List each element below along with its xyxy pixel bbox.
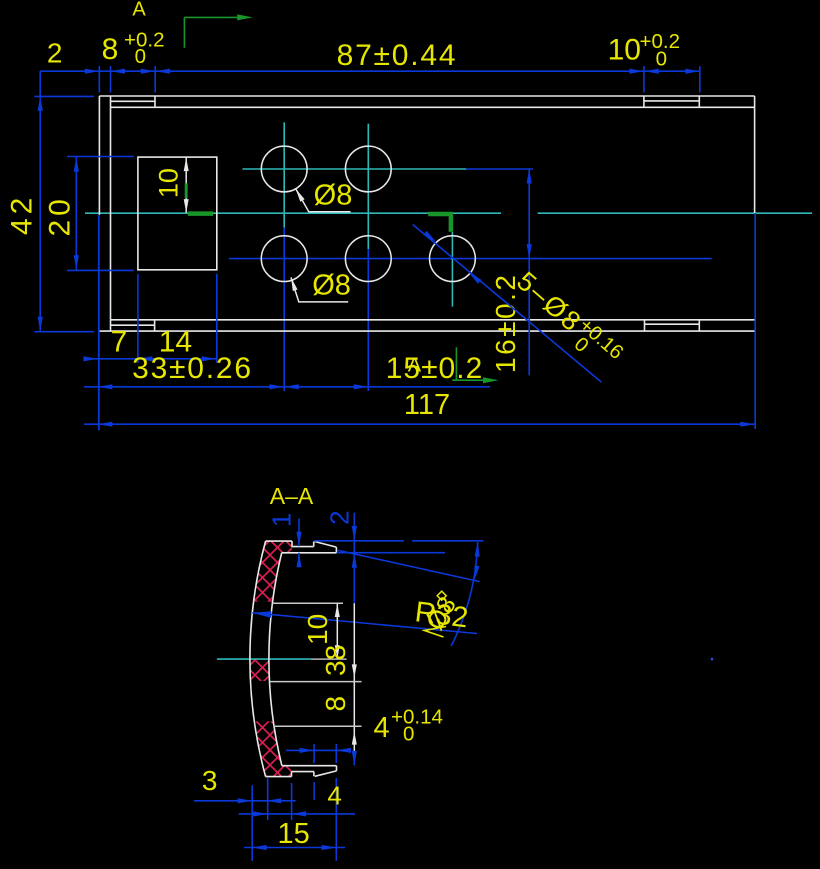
green mark at window <box>185 183 188 198</box>
svg-text:+0.14: +0.14 <box>391 706 443 729</box>
top lip underside <box>282 552 337 554</box>
svg-text:10: 10 <box>154 168 184 198</box>
bottom extension lines <box>252 778 336 861</box>
white dim 10 (window) <box>185 158 187 213</box>
white dim 10 (section) <box>273 602 343 604</box>
svg-text:3: 3 <box>202 765 218 796</box>
top edge <box>266 540 292 542</box>
main horizontal centerline <box>85 212 812 214</box>
outer top edge <box>99 95 754 97</box>
top dimension line (2 / 8 / 87 / 10) <box>40 66 700 93</box>
hole circles <box>261 146 475 281</box>
top lip chamfer <box>315 542 337 548</box>
hole 5 <box>430 236 476 282</box>
right long extension line <box>754 213 756 429</box>
angle dim arc <box>451 542 478 646</box>
dim 1 (lip) <box>298 519 300 568</box>
svg-text:10: 10 <box>302 614 333 645</box>
svg-text:0: 0 <box>135 45 146 68</box>
R32 radius dim line <box>252 613 477 634</box>
top-right slot verticals <box>643 96 645 107</box>
outer bottom edge <box>99 330 754 332</box>
svg-text:10: 10 <box>608 33 641 66</box>
bottom lip topside <box>282 765 337 767</box>
svg-text:7: 7 <box>111 326 128 359</box>
dim 8 (section) <box>270 681 362 683</box>
extension lines above part <box>98 66 100 93</box>
section arrow (top) <box>184 17 238 47</box>
svg-text:117: 117 <box>404 389 450 421</box>
yellow open arrow <box>424 627 446 638</box>
inner left edge <box>110 107 112 319</box>
leader Ø8 (lower) <box>291 277 348 302</box>
green mark at hole 5 <box>428 212 452 217</box>
dim 16±0.2 <box>466 169 533 375</box>
outer arc <box>250 541 266 777</box>
bottom notch vertical <box>313 772 315 777</box>
outer left edge (white part) <box>98 96 100 215</box>
svg-text:8: 8 <box>320 696 351 712</box>
left long extension line <box>98 215 100 430</box>
diagonal leader 5-Ø8 <box>413 225 602 383</box>
angle dim slant line <box>337 550 480 582</box>
svg-text:A: A <box>132 0 146 21</box>
column1 centerline <box>283 122 285 227</box>
section arrow (bottom) <box>452 347 488 380</box>
dim line 117 <box>84 423 755 425</box>
bottom lip chamfer <box>315 771 337 776</box>
dim line 33±0.26 / 15±0.2 <box>84 386 490 388</box>
small diamond <box>437 591 446 600</box>
svg-text:0: 0 <box>403 723 414 746</box>
leader Ø8 (upper) <box>296 189 351 212</box>
svg-text:42: 42 <box>6 194 39 235</box>
top-left slot midline <box>111 100 156 102</box>
dim 3 <box>194 800 296 802</box>
svg-text:0: 0 <box>656 48 667 71</box>
bottom ledge <box>292 771 314 773</box>
window rectangle <box>138 157 217 270</box>
svg-text:15: 15 <box>277 818 309 850</box>
dim 2 (lip) <box>314 513 483 604</box>
hatch patch 2 <box>250 659 270 681</box>
top lip end vertical <box>335 547 337 553</box>
svg-text:4: 4 <box>374 712 390 744</box>
dim 38 shaft (blue/white) <box>353 603 355 753</box>
section outline <box>250 541 337 777</box>
svg-text:A–A: A–A <box>270 483 314 509</box>
inner bottom edge <box>111 319 755 321</box>
svg-text:A: A <box>408 355 422 377</box>
svg-text:4: 4 <box>327 781 341 811</box>
stray dot <box>711 658 713 660</box>
hatch patch 3 <box>254 721 291 776</box>
section centerline <box>217 658 311 660</box>
top step <box>291 541 293 547</box>
hole 1 <box>261 146 307 192</box>
svg-text:Ø8: Ø8 <box>314 180 353 212</box>
outer right edge (white part) <box>754 96 756 213</box>
column2 centerline <box>367 124 369 249</box>
inner top edge <box>111 106 755 108</box>
dim 4 (notch) <box>239 813 355 815</box>
dim line 7 / 14 <box>84 358 217 360</box>
bottom lip end vertical <box>336 766 338 771</box>
bottom-left slot midline <box>111 324 155 326</box>
bottom edge <box>266 776 292 778</box>
inner arc <box>269 553 282 766</box>
hatch patch 1 <box>254 541 293 602</box>
svg-text:87±0.44: 87±0.44 <box>337 39 458 72</box>
bottom step <box>291 772 293 777</box>
hole 3 <box>261 236 307 282</box>
top-left slot verticals <box>110 96 112 107</box>
top ledge <box>292 546 314 548</box>
svg-text:1: 1 <box>267 513 297 527</box>
top notch vertical <box>313 542 315 547</box>
svg-text:2: 2 <box>325 510 355 524</box>
svg-text:2: 2 <box>47 38 63 69</box>
dim 15 (section) <box>244 847 345 849</box>
hole 4 <box>345 236 391 282</box>
svg-text:Ø8: Ø8 <box>312 269 351 301</box>
part outline <box>99 96 754 331</box>
svg-text:33±0.26: 33±0.26 <box>132 352 253 385</box>
bottom-right slot midline <box>645 323 700 325</box>
dim 20 <box>67 157 134 271</box>
row1 hole centerline (cyan part) <box>243 168 467 170</box>
dim 4 +0.14/0 <box>286 744 351 800</box>
dim 42 <box>34 71 94 332</box>
top-right slot midline <box>644 100 699 102</box>
arrows of top dimension line <box>85 69 100 74</box>
extensions for 7/14 <box>138 274 217 363</box>
svg-text:20: 20 <box>44 195 77 236</box>
svg-text:38: 38 <box>320 645 351 676</box>
bottom-right slot verticals <box>644 320 646 331</box>
svg-text:8: 8 <box>102 33 119 66</box>
column3 centerline <box>451 232 453 307</box>
row2 hole centerline (blue) <box>229 258 712 260</box>
hole 2 <box>345 146 391 192</box>
bottom-left slot verticals <box>110 320 112 331</box>
